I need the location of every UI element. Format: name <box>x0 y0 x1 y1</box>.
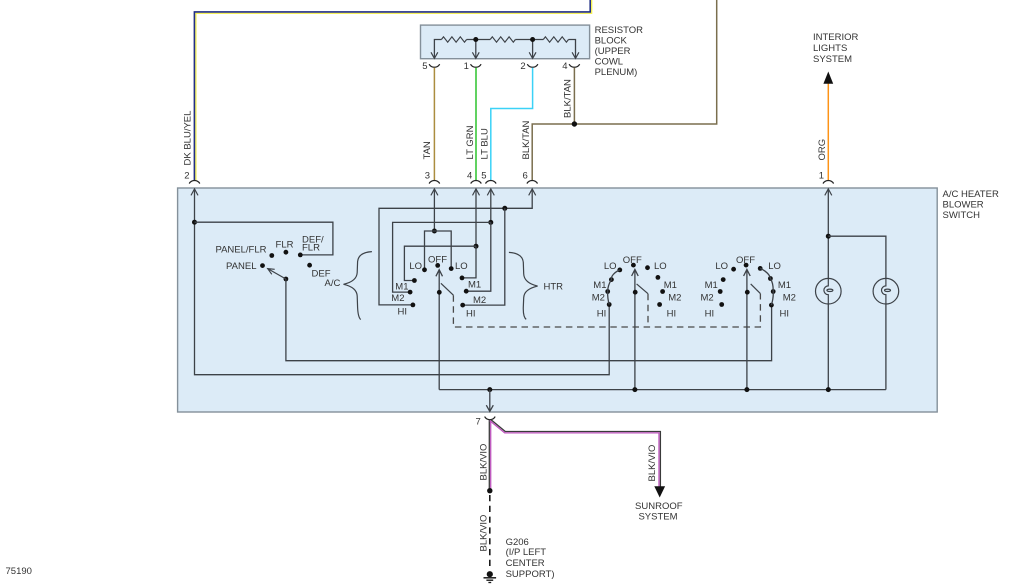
internal pin arrow pin 3 (up) <box>431 189 438 196</box>
junction dot TAN split <box>432 229 437 234</box>
S2 mechanical linkage solid diagonal <box>441 283 454 295</box>
connector cup pin 3 at switch top <box>429 181 440 184</box>
junction dot collector/S3 wiper <box>632 387 637 392</box>
svg-text:OFF: OFF <box>623 255 642 266</box>
S4 linkage solid diagonal <box>751 284 761 294</box>
svg-text:(UPPER: (UPPER <box>595 46 631 57</box>
fan switch S2 feed TAN: down to split node <box>433 189 435 231</box>
S2 contact M1 right <box>460 276 465 281</box>
label: G206 (I/P LEFT CENTER SUPPORT) <box>506 537 555 580</box>
S3 right contacts (open) <box>645 265 650 270</box>
arrowhead to sunroof system <box>654 486 665 497</box>
svg-text:M1: M1 <box>468 280 481 291</box>
wire pin 2 feed: down, across bottom, up to fan switch 2 left contacts <box>195 189 610 375</box>
arrowhead to interior lights system <box>823 72 833 84</box>
wire LT GRN junction to M1 left contact <box>404 246 476 280</box>
junction dot BLK/VIO to ground splice <box>487 488 492 493</box>
svg-text:2: 2 <box>184 171 189 182</box>
svg-text:LT GRN: LT GRN <box>465 125 476 159</box>
svg-text:LIGHTS: LIGHTS <box>813 43 847 54</box>
connector cup pin 4 at switch top <box>471 181 482 184</box>
internal pin arrow pin 4 (up) <box>473 189 480 196</box>
svg-text:M2: M2 <box>592 292 605 303</box>
wire BLK/TAN junction left and down to switch pin 6 <box>532 124 574 181</box>
S2 contact M2 right <box>464 289 469 294</box>
S3 labels <box>592 255 682 320</box>
svg-text:LT BLU: LT BLU <box>480 128 491 159</box>
S3 left contact arc <box>608 270 620 305</box>
junction dot collector/pin7 <box>487 387 492 392</box>
junction node on pin2 wire for mode switch feed <box>192 220 197 225</box>
svg-text:DK BLU/YEL: DK BLU/YEL <box>183 111 194 166</box>
S2 contact LO right <box>449 266 454 271</box>
svg-text:5: 5 <box>481 171 486 182</box>
illumination lamp L1 <box>816 278 842 304</box>
svg-text:LO: LO <box>768 261 781 272</box>
fan switch S3 contact OFF <box>631 263 636 268</box>
connector cup pin 5 at switch top <box>486 181 497 184</box>
label: RESISTOR BLOCK (UPPER COWL PLENUM) <box>595 25 644 78</box>
internal pin arrows pointing down to box edge <box>431 52 579 58</box>
fan switch S2 feed LT BLU: down to junction <box>490 189 492 223</box>
wire BLK/TAN from resistor pin 4 down to junction <box>573 68 575 124</box>
svg-text:HI: HI <box>667 309 677 320</box>
S2 wiper line down to collector with arrowhead at OFF <box>436 270 443 390</box>
internal pin arrow pin 5 (up) <box>487 189 494 196</box>
connector cup pin 1 of resistor block <box>471 64 482 67</box>
svg-text:BLK/VIO: BLK/VIO <box>478 444 489 481</box>
junction dot BLK/TAN <box>572 121 577 126</box>
wire LT BLU from resistor pin 2 jogging left to switch pin 5 <box>491 68 533 181</box>
wire BLK/TAN junction to top right interior lights feed <box>574 0 716 124</box>
svg-text:PANEL: PANEL <box>226 261 256 272</box>
junction dot between R2 and R3 <box>530 37 535 42</box>
S2 labels <box>391 255 486 320</box>
svg-text:TAN: TAN <box>422 141 433 159</box>
svg-text:1: 1 <box>464 61 469 72</box>
internal pin arrow pin 7 (down) <box>486 390 493 412</box>
wire BLK/TAN junction to HI right contact <box>463 208 505 305</box>
svg-text:LO: LO <box>654 261 667 272</box>
svg-text:SWITCH: SWITCH <box>943 210 981 221</box>
svg-text:BLK/TAN: BLK/TAN <box>562 79 573 118</box>
wire BLK/VIO branch to sunroof (violet) <box>490 421 659 487</box>
wire branch to lamp 2 <box>828 236 886 278</box>
svg-text:OFF: OFF <box>736 255 755 266</box>
resistor block box (upper cowl plenum) <box>421 25 590 59</box>
svg-text:M1: M1 <box>778 280 791 291</box>
fan switch S2 feed BLK/TAN: down then left to HI left contact <box>379 189 532 305</box>
svg-text:INTERIOR: INTERIOR <box>813 32 859 43</box>
wire LT BLU junction to M2 left contact <box>393 222 491 292</box>
S4 left contacts (open) <box>731 267 736 272</box>
wire DK BLU/YEL (blue) from top edge to switch pin 2 <box>194 0 590 181</box>
connector cup pin 6 at switch top <box>527 181 538 184</box>
svg-text:FLR: FLR <box>276 239 294 250</box>
S2 contact HI left <box>411 303 416 308</box>
mode switch contact PANEL/FLR <box>269 253 274 258</box>
svg-text:4: 4 <box>467 171 472 182</box>
resistor R3 <box>543 37 568 42</box>
S2 contact HI right <box>460 303 465 308</box>
junction dot lamp feed <box>826 234 831 239</box>
svg-text:4: 4 <box>562 61 567 72</box>
svg-text:RESISTOR: RESISTOR <box>595 25 644 36</box>
fan switch S2 contact OFF <box>435 263 440 268</box>
svg-text:M2: M2 <box>391 293 404 304</box>
A/C heater blower switch box U1 <box>178 188 938 412</box>
junction dot BLK/TAN inner <box>502 206 507 211</box>
svg-text:(I/P LEFT: (I/P LEFT <box>506 547 547 558</box>
ganged linkage dashed line S2 to S3 to S4 <box>453 294 760 327</box>
S2 contact M2 left <box>408 290 413 295</box>
svg-text:M1: M1 <box>664 280 677 291</box>
S4 right contact arc <box>760 268 773 305</box>
svg-text:M2: M2 <box>668 292 681 303</box>
svg-text:HI: HI <box>780 309 790 320</box>
fan switch S2 feed LT GRN: down to junction <box>475 189 477 246</box>
S3 linkage solid diagonal <box>637 284 648 294</box>
junction dot collector/lamp1 <box>826 387 831 392</box>
wire BLK/VIO pin 7 down (black) <box>488 420 490 489</box>
svg-text:ORG: ORG <box>817 139 828 161</box>
wire mode wiper output: down, right, up to fan switch 3 right contacts <box>286 279 772 361</box>
connector cup pin 2 at switch top <box>189 181 200 184</box>
mode switch S1 contact PANEL <box>260 263 265 268</box>
wire LT GRN from resistor pin 1 to switch pin 4 <box>475 68 477 181</box>
label: INTERIOR LIGHTS SYSTEM <box>813 32 859 65</box>
connector cup pin 1 at switch top <box>823 181 834 184</box>
svg-text:SYSTEM: SYSTEM <box>813 54 852 65</box>
svg-text:7: 7 <box>476 417 481 428</box>
mode switch wiper pivot <box>284 277 289 282</box>
svg-text:HI: HI <box>597 309 607 320</box>
resistor R2 <box>490 37 515 42</box>
svg-text:BLK/VIO: BLK/VIO <box>478 515 489 552</box>
wire LT GRN junction to M1 right contact <box>462 246 476 278</box>
svg-text:BLK/TAN: BLK/TAN <box>521 120 532 159</box>
svg-text:M1: M1 <box>705 280 718 291</box>
wire BLK/VIO branch to sunroof (black) <box>491 420 661 487</box>
fan switch S4 contact OFF <box>744 263 749 268</box>
illumination lamp L2 <box>873 278 899 304</box>
S2 contact M1 left <box>412 278 417 283</box>
wire LT BLU junction to M2 right contact <box>466 222 491 291</box>
svg-text:BLK/VIO: BLK/VIO <box>647 445 658 482</box>
S4 wiper line down to collector with arrowhead at OFF <box>744 269 751 389</box>
svg-text:BLOCK: BLOCK <box>595 35 628 46</box>
wire ORG from interior lights system to switch pin 1 <box>827 84 829 181</box>
mode switch contact DEF/FLR <box>298 253 303 258</box>
svg-text:PLENUM): PLENUM) <box>595 67 638 78</box>
wire n-split to both LO contacts <box>425 231 452 270</box>
wire TAN from resistor pin 5 to switch pin 3 <box>433 68 435 181</box>
connector cup pin 2 of resistor block <box>527 64 538 67</box>
svg-text:FLR: FLR <box>302 243 320 254</box>
svg-text:A/C: A/C <box>325 278 341 289</box>
mode switch contact DEF <box>307 263 312 268</box>
svg-text:SUPPORT): SUPPORT) <box>506 569 555 580</box>
S3 wiper pivot dot <box>633 290 638 295</box>
S3 left contacts LO M1 M2 HI joined by arc <box>617 268 622 273</box>
svg-text:75190: 75190 <box>6 566 32 577</box>
wire BLK/VIO pin 7 down (violet) <box>490 421 492 490</box>
svg-text:CENTER: CENTER <box>506 558 545 569</box>
junction dot collector/S4 wiper <box>744 387 749 392</box>
svg-text:M1: M1 <box>593 280 606 291</box>
svg-text:HTR: HTR <box>544 281 564 292</box>
svg-text:3: 3 <box>425 171 430 182</box>
ground symbol G206 <box>484 578 497 583</box>
svg-text:SYSTEM: SYSTEM <box>638 512 677 523</box>
label: A/C HEATER BLOWER SWITCH <box>943 189 999 221</box>
S4 labels <box>700 255 795 320</box>
S3 wiper line down to collector with arrowhead at OFF <box>632 269 639 389</box>
collector wire along bottom of switch box <box>439 389 886 391</box>
svg-text:A/C HEATER: A/C HEATER <box>943 189 999 200</box>
svg-text:M2: M2 <box>783 292 796 303</box>
svg-text:1: 1 <box>819 171 824 182</box>
S3 linkage dashed riser <box>647 294 649 327</box>
junction dot LT GRN <box>474 244 479 249</box>
connector cup pin 5 of resistor block <box>429 64 440 67</box>
svg-text:LO: LO <box>455 261 468 272</box>
dashed ground lead wire <box>489 495 491 570</box>
svg-text:HI: HI <box>705 309 715 320</box>
brace for HTR section <box>509 252 538 319</box>
mode switch wiper arm with arrowhead toward PANEL <box>268 269 286 279</box>
svg-text:PANEL/FLR: PANEL/FLR <box>215 244 266 255</box>
svg-text:LO: LO <box>409 261 422 272</box>
svg-text:HI: HI <box>398 306 408 317</box>
junction dot LT BLU <box>488 220 493 225</box>
internal pin arrow pin 1 (up) <box>825 189 832 196</box>
label: SUNROOF SYSTEM <box>635 501 683 523</box>
svg-text:SUNROOF: SUNROOF <box>635 501 683 512</box>
resistor R1 <box>441 37 466 42</box>
svg-text:OFF: OFF <box>428 255 447 266</box>
wire ORG feed down to lamp 1 <box>827 189 829 279</box>
wire lamp 2 bottom to collector corner <box>885 304 887 390</box>
svg-text:LO: LO <box>715 261 728 272</box>
svg-text:LO: LO <box>604 261 617 272</box>
svg-text:5: 5 <box>422 61 427 72</box>
svg-text:HI: HI <box>466 308 476 319</box>
S4 wiper pivot dot <box>745 290 750 295</box>
connector cup pin 4 of resistor block <box>569 64 580 67</box>
mode switch contact FLR <box>284 250 289 255</box>
svg-text:COWL: COWL <box>595 56 624 67</box>
S4 right contacts LO M1 M2 HI joined by arc <box>758 266 763 271</box>
S2 wiper pivot dot <box>437 290 442 295</box>
brace for A/C section <box>344 252 372 320</box>
wire lamp 1 bottom to collector <box>827 304 829 390</box>
junction dot between R1 and R2 <box>473 37 478 42</box>
svg-text:2: 2 <box>520 61 525 72</box>
resistor block internal bus wire <box>434 40 575 53</box>
svg-text:M2: M2 <box>700 292 713 303</box>
svg-text:6: 6 <box>523 171 528 182</box>
svg-text:M1: M1 <box>395 281 408 292</box>
internal pin arrow pin 2 (up) <box>191 189 198 196</box>
internal pin arrow pin 6 (up) <box>529 189 536 196</box>
wire DK BLU/YEL (yellow tracer) <box>196 0 592 181</box>
ground splice dot <box>487 571 493 577</box>
S2 contact LO left <box>422 267 427 272</box>
svg-text:M2: M2 <box>473 295 486 306</box>
svg-text:BLOWER: BLOWER <box>943 199 984 210</box>
wire mode switch feed to DEF/FLR contact <box>195 222 333 255</box>
connector cup pin 7 at switch bottom <box>485 417 496 420</box>
